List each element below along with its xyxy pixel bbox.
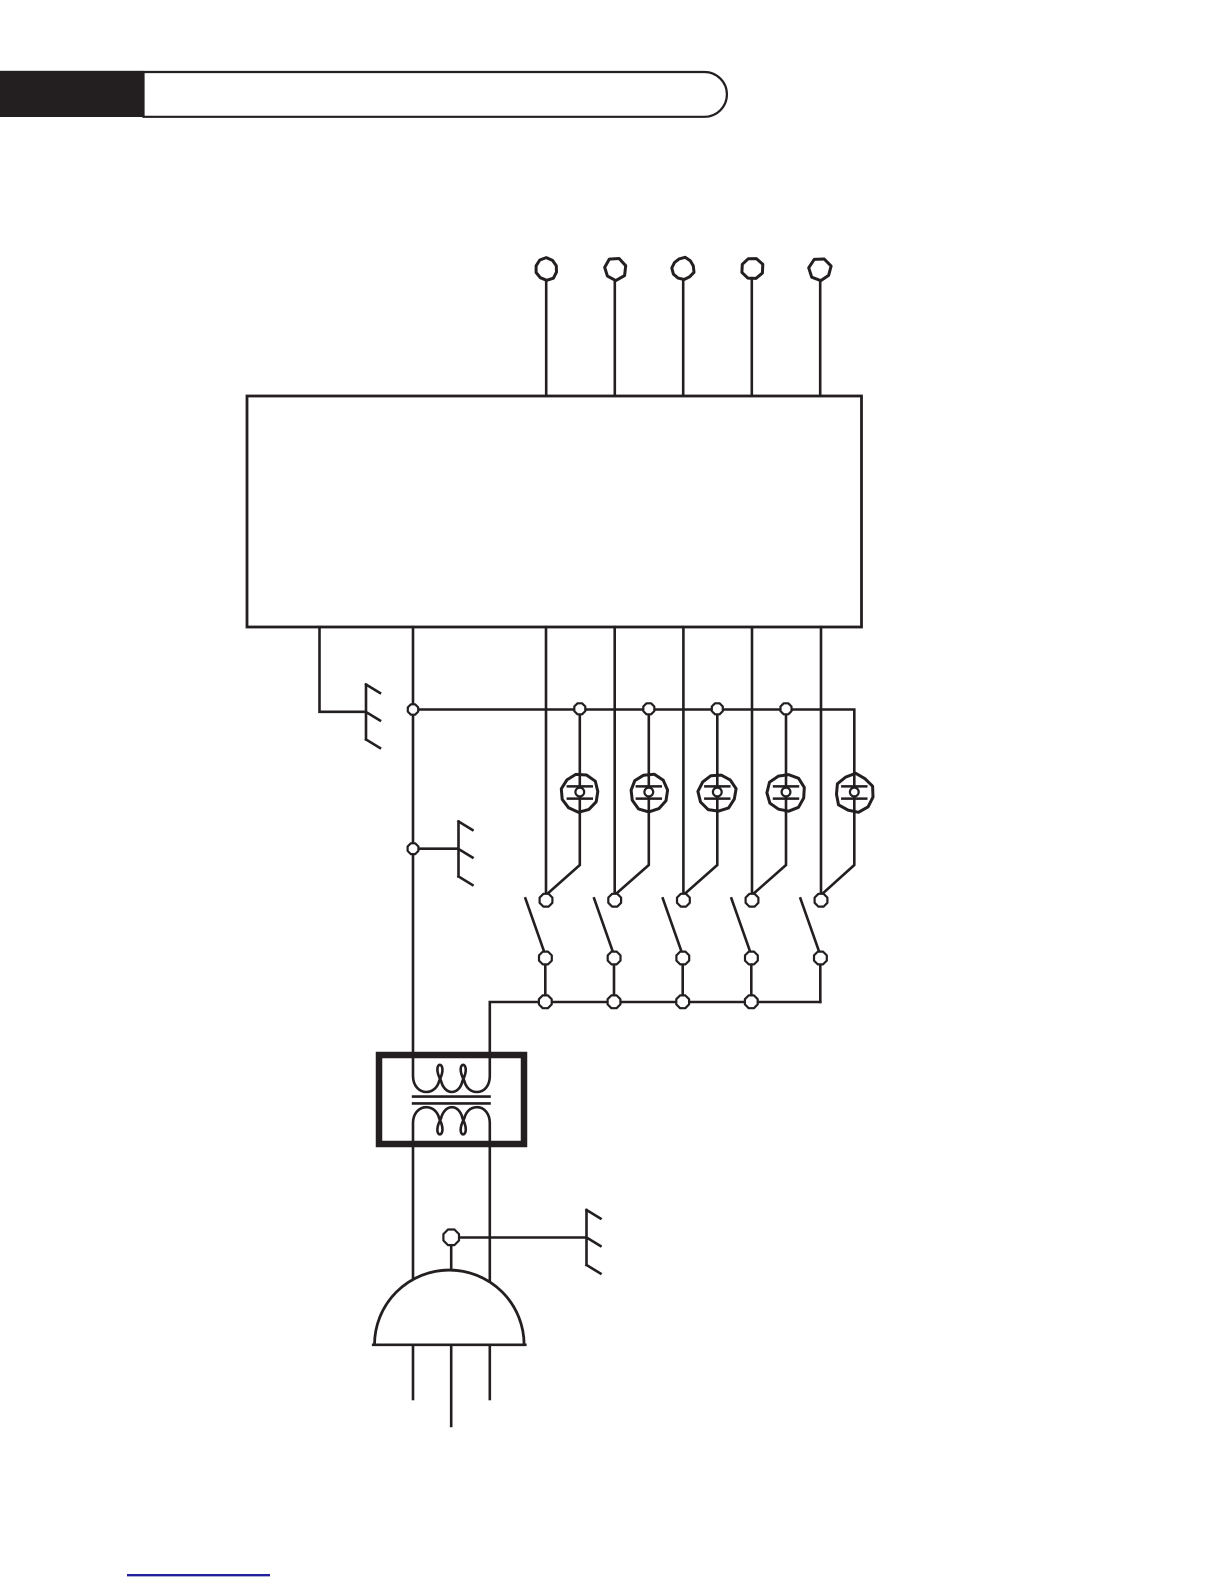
wire terminal P3 to controller pin xyxy=(682,281,685,397)
wire terminal P2 to controller pin xyxy=(613,281,616,397)
junction node bus tap 3 xyxy=(712,703,723,714)
switch S3 top terminal xyxy=(677,894,690,907)
switch S4 blade xyxy=(731,898,750,951)
wire lamp DS3 to switch S3 top terminal xyxy=(684,812,717,895)
chassis ground G1 xyxy=(366,685,380,749)
wire bus tap to lamp DS4 xyxy=(785,710,788,775)
wire controller output 1 to switch S1 xyxy=(545,627,548,893)
wire node B to chassis ground G2 xyxy=(413,847,458,850)
wire controller output 5 to switch S5 xyxy=(820,627,823,893)
wire bell lead center xyxy=(450,1346,453,1426)
wire switch S5 to bottom bus corner xyxy=(819,965,822,1002)
transformer T1 secondary winding xyxy=(413,1107,490,1144)
lamp supply bus from node A xyxy=(413,710,854,775)
junction node switch S2 on bottom bus xyxy=(608,995,621,1008)
junction node bus tap 2 xyxy=(643,703,654,714)
bell B1 dome xyxy=(375,1270,525,1345)
bell B1 base line xyxy=(373,1344,525,1347)
junction node B xyxy=(408,843,419,854)
switch S2 top terminal xyxy=(608,894,621,907)
terminal P1 xyxy=(536,258,556,281)
junction node switch S4 on bottom bus xyxy=(745,995,758,1008)
junction node A xyxy=(408,704,418,714)
switch S3 blade xyxy=(663,898,682,951)
wire switch S2 to bottom bus xyxy=(613,965,616,996)
wire secondary left lead to bell xyxy=(412,1144,415,1280)
wire controller output 2 to switch S2 xyxy=(613,627,616,893)
wire controller output 3 to switch S3 xyxy=(682,627,685,893)
switch S5 blade xyxy=(800,898,819,951)
wire bus tap to lamp DS1 xyxy=(578,710,581,775)
transformer T1 enclosure xyxy=(379,1055,524,1144)
terminal P3 xyxy=(672,257,694,279)
switch S5 top terminal xyxy=(815,894,828,907)
switch S2 bottom terminal xyxy=(608,952,621,965)
transformer T1 core xyxy=(412,1097,491,1104)
chassis ground G3 xyxy=(587,1210,601,1274)
wire controller pin A to chassis ground G1 xyxy=(320,627,366,712)
wire secondary right lead to bell xyxy=(488,1144,491,1283)
lamp DS5 xyxy=(837,773,874,812)
junction node switch S3 on bottom bus xyxy=(676,995,689,1008)
switch S1 blade xyxy=(525,898,544,951)
wire switch S3 to bottom bus xyxy=(681,965,684,996)
wire node C to chassis ground G3 xyxy=(451,1236,586,1239)
chassis ground G2 xyxy=(459,822,473,886)
terminal P2 xyxy=(605,259,626,281)
lamp DS1 xyxy=(561,774,598,812)
wire terminal P5 to controller pin xyxy=(819,281,822,397)
lamp DS3 xyxy=(698,775,736,812)
junction node switch S1 on bottom bus xyxy=(539,995,552,1008)
wire terminal P4 to controller pin xyxy=(750,281,753,397)
wire bus tap to lamp DS3 xyxy=(716,710,719,775)
wire node C to bell apex xyxy=(450,1246,453,1271)
terminal P5 xyxy=(809,259,831,281)
junction node bus tap 4 xyxy=(781,703,792,714)
lamp DS2 xyxy=(631,774,668,812)
switch S2 blade xyxy=(594,898,613,951)
wire lamp DS4 to switch S4 top terminal xyxy=(753,812,786,895)
wire bell lead left xyxy=(412,1346,415,1399)
switch S3 bottom terminal xyxy=(676,952,689,965)
footer blue rule xyxy=(127,1574,270,1576)
wire controller output 4 to switch S4 xyxy=(751,627,754,893)
header black tab xyxy=(0,71,144,117)
terminal P4 xyxy=(742,259,763,279)
wire switch S4 to bottom bus xyxy=(750,965,753,996)
switch S5 bottom terminal xyxy=(814,952,827,965)
lamp DS4 xyxy=(767,775,804,812)
wire terminal P1 to controller pin xyxy=(545,281,548,397)
wire lamp DS5 to switch S5 top terminal xyxy=(822,812,855,895)
node C junction xyxy=(443,1230,459,1246)
wire switch S1 to bottom bus xyxy=(544,965,547,996)
switch S1 top terminal xyxy=(540,894,553,907)
switch S4 top terminal xyxy=(746,894,759,907)
transformer T1 primary winding xyxy=(413,1055,490,1092)
junction node bus tap 1 xyxy=(574,703,585,714)
wire bell lead right xyxy=(488,1346,491,1399)
wire bus tap to lamp DS2 xyxy=(647,710,650,775)
bottom common bus to transformer primary xyxy=(490,1002,821,1076)
controller box U1 xyxy=(247,396,862,627)
wire controller pin B down to transformer primary (net N1) xyxy=(412,627,415,1076)
wire lamp DS1 to switch S1 top terminal xyxy=(547,812,580,895)
header rounded title bar xyxy=(144,72,727,117)
switch S4 bottom terminal xyxy=(745,952,758,965)
switch S1 bottom terminal xyxy=(539,952,552,965)
wire lamp DS2 to switch S2 top terminal xyxy=(616,812,649,895)
